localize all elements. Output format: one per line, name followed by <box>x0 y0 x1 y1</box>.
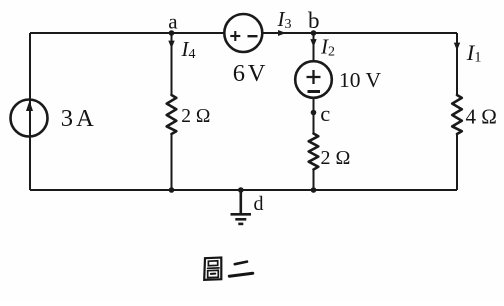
caption figure-two glyph er <box>229 262 253 277</box>
ground symbol <box>231 190 252 224</box>
voltage source U-10V circle <box>295 61 332 98</box>
svg-text:10 V: 10 V <box>339 68 381 92</box>
caption figure-two glyph tu <box>204 258 221 280</box>
svg-text:c: c <box>320 101 330 126</box>
junction dot ground <box>238 187 244 193</box>
svg-text:4 Ω: 4 Ω <box>466 105 497 129</box>
wire top-right segment <box>262 32 457 34</box>
wire branch b upper <box>313 33 315 62</box>
svg-text:I2: I2 <box>320 34 335 59</box>
svg-text:b: b <box>308 8 320 33</box>
arrow I2 <box>310 39 316 47</box>
10V plus sign <box>307 70 321 84</box>
svg-text:6 V: 6 V <box>233 60 266 87</box>
6V plus sign <box>230 31 240 41</box>
junction dot bottom-mid branch <box>311 187 317 193</box>
wire bottom <box>30 189 457 191</box>
svg-text:3 A: 3 A <box>61 105 94 132</box>
current source 3A arrowhead <box>26 101 33 112</box>
voltage source U-6V circle <box>224 14 262 52</box>
svg-text:2 Ω: 2 Ω <box>181 106 210 127</box>
resistor R-4ohm <box>452 95 462 134</box>
wire top-left segment <box>30 32 225 34</box>
resistor R-2ohm-left <box>167 95 177 134</box>
wire right vertical lower <box>456 134 458 190</box>
resistor R-2ohm-mid <box>309 134 319 170</box>
wire right vertical upper <box>456 33 458 95</box>
10V minus sign <box>308 90 321 93</box>
svg-text:I1: I1 <box>466 40 482 66</box>
svg-text:2 Ω: 2 Ω <box>321 147 351 169</box>
current source 3A circle <box>11 100 48 137</box>
wire branch b middle <box>313 98 315 134</box>
svg-text:d: d <box>254 193 264 215</box>
node b junction dot <box>311 30 317 36</box>
arrow I4 <box>168 41 174 49</box>
junction dot bottom-left branch <box>169 187 175 193</box>
svg-text:I4: I4 <box>181 37 196 62</box>
svg-text:a: a <box>168 10 178 34</box>
arrow I3 <box>278 30 286 36</box>
6V minus sign <box>248 35 258 37</box>
wire left vertical <box>29 33 31 190</box>
wire branch a lower <box>171 134 173 190</box>
wire branch b lower <box>313 170 315 191</box>
wire branch a upper <box>171 33 173 95</box>
arrow I1 <box>454 43 460 51</box>
node c junction dot <box>311 110 317 116</box>
svg-text:I3: I3 <box>277 7 292 32</box>
node a junction dot <box>169 30 175 36</box>
